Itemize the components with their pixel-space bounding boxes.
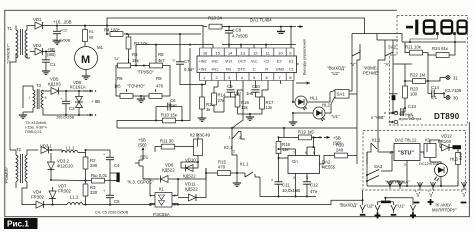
- resistor R18: [276, 136, 290, 158]
- divider top rail: [402, 41, 466, 43]
- svg-text:14: 14: [228, 51, 232, 55]
- svg-text:R21 10к: R21 10к: [405, 44, 421, 49]
- svg-text:VD2: VD2: [33, 43, 42, 48]
- wire from box to output: [362, 190, 364, 200]
- svg-text:100: 100: [410, 91, 418, 96]
- svg-text:Gn: Gn: [292, 159, 298, 164]
- output arrow bottom: [296, 82, 310, 85]
- svg-text:ПЭВ-0,21: ПЭВ-0,21: [25, 130, 42, 134]
- wire SA1 right: [349, 56, 360, 128]
- svg-text:Vref: Vref: [225, 59, 233, 63]
- dashed box DT890: [390, 16, 468, 126]
- resistor R13: [203, 15, 230, 48]
- ground near C8: [277, 26, 285, 34]
- fork plus: [375, 205, 380, 213]
- diode VD4: [30, 189, 53, 208]
- resistor R3: [83, 181, 98, 206]
- svg-text:"U": "U": [114, 57, 120, 61]
- svg-text:GND: GND: [276, 68, 285, 72]
- svg-text:мультиметра: мультиметра: [399, 117, 423, 121]
- svg-text:Т3: К10х6х5,: Т3: К10х6х5,: [25, 121, 47, 125]
- svg-text:0,51*: 0,51*: [184, 67, 194, 72]
- svg-text:РЕНИЕ": РЕНИЕ": [363, 71, 380, 76]
- svg-text:(SB): (SB): [47, 52, 56, 57]
- wire to box: [314, 128, 358, 164]
- digit 8 c: [458, 21, 467, 34]
- wire R10 bus: [117, 48, 190, 128]
- svg-text:68: 68: [89, 36, 93, 40]
- svg-text:Т2: Т2: [16, 147, 22, 152]
- svg-text:КС191А: КС191А: [70, 85, 86, 90]
- svg-text:ICL7106: ICL7106: [445, 88, 462, 93]
- svg-text:DA1 TL494: DA1 TL494: [250, 18, 272, 23]
- minus sign: [406, 26, 413, 29]
- resistor R22: [393, 53, 429, 84]
- resistor R4: [104, 27, 128, 36]
- bold bar C4C5: [117, 173, 120, 183]
- svg-text:С3: С3: [69, 106, 75, 111]
- motor M1 fan: [75, 45, 104, 79]
- resistor R16: [235, 90, 249, 114]
- ground K: [236, 173, 238, 180]
- svg-text:30: 30: [453, 96, 458, 101]
- svg-text:С1: С1: [50, 62, 56, 67]
- box bottom bus: [367, 152, 458, 186]
- svg-text:питание: питание: [399, 112, 413, 116]
- resistor R23: [403, 81, 419, 108]
- svg-text:1: 1: [229, 135, 231, 139]
- svg-text:КД522: КД522: [185, 186, 198, 191]
- svg-text:Vcc: Vcc: [251, 59, 257, 63]
- capacitor C4: [85, 149, 121, 173]
- ground bus under timer: [260, 190, 316, 197]
- svg-text:1н5: 1н5: [246, 91, 254, 96]
- svg-text:I: I: [29, 96, 30, 100]
- digit 8 a: [424, 21, 435, 34]
- svg-text:"V": "V": [350, 62, 356, 67]
- svg-text:"STANDBY": "STANDBY": [7, 43, 11, 64]
- svg-text:± С8: ± С8: [232, 28, 242, 33]
- svg-text:4к7: 4к7: [158, 58, 165, 63]
- svg-text:9: 9: [289, 51, 291, 55]
- resistor R11: [155, 138, 198, 152]
- svg-text:Rш 0,01: Rш 0,01: [91, 173, 108, 178]
- wire C9 down bus: [224, 97, 236, 112]
- svg-text:R8: R8: [158, 52, 164, 57]
- wire IC right to rails: [293, 64, 299, 90]
- pushbutton SB1: [135, 152, 149, 179]
- bottom bus: [110, 200, 363, 204]
- LED HL3: [430, 156, 458, 186]
- svg-text:С14: С14: [431, 85, 439, 90]
- fork minus U1: [391, 205, 396, 213]
- diode VD3.2: [48, 149, 74, 180]
- svg-text:27к: 27к: [218, 98, 225, 103]
- potentiometer R8: [150, 44, 177, 80]
- svg-text:330: 330: [90, 163, 98, 168]
- battery forks dashed: [415, 191, 420, 199]
- diode VD3.1: [40, 143, 62, 153]
- zener VD6: [70, 80, 86, 116]
- svg-text:+16...20В: +16...20В: [53, 20, 72, 25]
- +5V SB terminal: [138, 137, 147, 152]
- svg-text:2: 2: [404, 163, 406, 167]
- capacitor C3: [56, 90, 75, 120]
- svg-text:"U1": "U1": [331, 114, 340, 119]
- potentiometer R9: [149, 76, 170, 98]
- svg-text:NE555: NE555: [322, 165, 336, 170]
- svg-text:±: ±: [271, 178, 273, 182]
- svg-text:M: M: [81, 54, 90, 66]
- output arrow top: [297, 25, 303, 28]
- svg-text:+IN2: +IN2: [199, 59, 207, 63]
- svg-text:SA1: SA1: [337, 92, 346, 97]
- svg-text:15к: 15к: [132, 58, 139, 63]
- svg-text:+С2: +С2: [60, 29, 67, 33]
- svg-text:SB1: SB1: [140, 154, 149, 159]
- wire R4 rail: [107, 26, 201, 35]
- svg-text:К2 РЭС49: К2 РЭС49: [190, 133, 211, 138]
- svg-text:РЭС55А: РЭС55А: [153, 212, 170, 217]
- svg-text:10: 10: [278, 51, 282, 55]
- svg-text:Т3: Т3: [36, 83, 42, 88]
- svg-text:C1: C1: [289, 68, 294, 72]
- resistor R21: [405, 41, 428, 55]
- svg-text:"U2": "U2": [331, 71, 340, 76]
- svg-text:"ТОЧНО": "ТОЧНО": [127, 84, 146, 89]
- svg-text:12к: 12к: [241, 105, 248, 110]
- wire rail y26.6: [107, 26, 296, 27]
- resistor R10: [155, 107, 183, 123]
- svg-text:С4: С4: [114, 163, 120, 168]
- svg-text:330: 330: [90, 190, 98, 195]
- dp 2: [453, 32, 456, 35]
- svg-text:1: 1: [203, 76, 205, 80]
- svg-text:L1.1: L1.1: [66, 145, 75, 150]
- svg-text:3: 3: [228, 76, 230, 80]
- resistor R17: [238, 90, 274, 120]
- svg-text:R6: R6: [117, 76, 123, 81]
- svg-text:C2: C2: [264, 59, 269, 63]
- svg-text:R1: R1: [89, 30, 94, 34]
- svg-text:С9: С9: [227, 84, 233, 89]
- svg-text:(SB): (SB): [138, 142, 147, 147]
- svg-text:С5: С5: [114, 199, 120, 204]
- svg-text:240: 240: [336, 148, 344, 153]
- diode VD10: [181, 157, 199, 171]
- svg-text:I-15в, II-30*ч: I-15в, II-30*ч: [25, 126, 47, 130]
- capacitor C5: [103, 182, 120, 206]
- svg-text:R9: R9: [156, 76, 162, 81]
- svg-text:11к*: 11к*: [282, 147, 290, 152]
- svg-text:31: 31: [453, 76, 458, 81]
- wires display to divider: [410, 35, 455, 42]
- diode VD12: [438, 134, 453, 151]
- IC DA1 TL494: [197, 18, 297, 81]
- svg-text:К1.1: К1.1: [372, 137, 381, 142]
- svg-text:+ 9В: + 9В: [91, 99, 100, 104]
- svg-text:C: C: [253, 68, 256, 72]
- switch SA2-V: [350, 34, 397, 67]
- svg-text:3к: 3к: [206, 107, 210, 112]
- svg-text:R24 91к: R24 91к: [432, 46, 448, 51]
- LED HL2: [292, 103, 331, 121]
- svg-text:С10: С10: [252, 84, 260, 89]
- svg-text:T1: T1: [7, 26, 13, 31]
- switch K2.1: [224, 128, 245, 173]
- relay K1 box X1: [143, 179, 179, 217]
- svg-text:II: II: [45, 96, 47, 100]
- svg-text:КД522: КД522: [183, 173, 196, 178]
- diode VD9: [143, 162, 179, 182]
- regulator DA2 78L12: [383, 137, 427, 168]
- svg-text:1к5: 1к5: [114, 84, 121, 89]
- relay K3: [424, 137, 440, 162]
- svg-text:К1: К1: [159, 186, 165, 191]
- svg-text:SA2: SA2: [388, 44, 397, 49]
- svg-text:С12: С12: [310, 182, 318, 187]
- capacitor C14: [428, 81, 444, 100]
- svg-text:15: 15: [216, 51, 220, 55]
- svg-text:470: 470: [156, 84, 164, 89]
- resistor R19: [279, 130, 331, 140]
- inductor L1.2: [53, 194, 110, 204]
- svg-text:M1: M1: [97, 45, 104, 50]
- svg-text:16: 16: [203, 51, 207, 55]
- svg-text:+IN1: +IN1: [199, 68, 207, 72]
- svg-text:13: 13: [241, 51, 245, 55]
- svg-text:DT890: DT890: [434, 112, 460, 121]
- svg-text:12к: 12к: [266, 105, 273, 110]
- resistor R14: [212, 87, 226, 112]
- svg-text:VD1: VD1: [33, 17, 42, 22]
- resistor R12: [198, 85, 215, 122]
- transformer T1: [7, 26, 30, 63]
- diode VD7: [49, 183, 71, 205]
- svg-text:"U2": "U2": [366, 204, 375, 209]
- resistor R7: [126, 34, 147, 63]
- wire mains left: [9, 62, 11, 150]
- wire meter leads: [360, 44, 395, 149]
- fork plus right: [410, 205, 415, 213]
- svg-text:OCT: OCT: [238, 59, 247, 63]
- switch K1.2: [367, 137, 383, 164]
- svg-text:"POWER": "POWER": [5, 166, 9, 184]
- wire pins down: [206, 81, 294, 91]
- svg-text:470: 470: [218, 164, 226, 169]
- svg-text:"U1": "U1": [397, 204, 406, 209]
- svg-text:4: 4: [241, 76, 243, 80]
- svg-text:L1.2: L1.2: [70, 194, 79, 199]
- timer DA3 NE555: [278, 137, 336, 190]
- svg-text:FB: FB: [226, 68, 231, 72]
- wire rail y44.6: [136, 44, 213, 46]
- svg-text:-IN1: -IN1: [211, 68, 218, 72]
- svg-text:"ГРУБО": "ГРУБО": [137, 70, 154, 75]
- wire y44.6 right segment: [213, 27, 296, 48]
- capacitor C9: [227, 84, 242, 97]
- svg-text:E2: E2: [277, 59, 282, 63]
- svg-text:"ВЫХОД": "ВЫХОД": [327, 66, 346, 71]
- switch SA2-A: [377, 34, 398, 67]
- diode VD1: [30, 17, 107, 29]
- svg-text:10,0х16В: 10,0х16В: [282, 188, 300, 193]
- terminal 31: [428, 76, 458, 82]
- svg-text:DTC: DTC: [238, 68, 246, 72]
- svg-text:R22 1М: R22 1М: [410, 72, 425, 77]
- resistor R20: [324, 143, 357, 158]
- svg-text:FR302: FR302: [58, 188, 72, 193]
- capacitor C11: [271, 157, 300, 193]
- dp 1: [436, 32, 439, 35]
- svg-text:47н: 47н: [310, 189, 318, 194]
- svg-text:С4, С5 2200,0х50В: С4, С5 2200,0х50В: [95, 210, 129, 214]
- svg-text:2: 2: [174, 194, 176, 198]
- capacitor C7: [176, 33, 203, 86]
- svg-text:-IN2: -IN2: [211, 59, 218, 63]
- capacitor C13: [395, 104, 416, 119]
- capacitor C10: [246, 84, 262, 97]
- svg-text:VD12: VD12: [441, 134, 452, 139]
- svg-text:4,7х50В: 4,7х50В: [232, 34, 248, 39]
- transformer T3: [19, 83, 48, 118]
- svg-text:11: 11: [266, 51, 270, 55]
- svg-text:С11: С11: [282, 182, 290, 187]
- capacitor C6: [156, 98, 182, 111]
- svg-text:КД103: КД103: [48, 82, 61, 87]
- svg-text:HL1: HL1: [310, 96, 318, 101]
- diode VD2: [30, 43, 55, 55]
- transformer T2: [10, 147, 38, 205]
- fig label box: [4, 218, 38, 229]
- svg-text:С7: С7: [184, 59, 190, 64]
- potentiometer R6: [114, 76, 133, 98]
- capacitor C2: [52, 26, 71, 45]
- resistor R1: [83, 26, 94, 47]
- LED HL1: [292, 90, 330, 110]
- svg-text:R11 30: R11 30: [160, 138, 174, 143]
- potentiometer R5: [114, 52, 139, 80]
- svg-text:15н*: 15н*: [168, 103, 177, 108]
- svg-text:3: 3: [389, 151, 391, 155]
- switch K1.1: [236, 161, 260, 177]
- svg-text:Рис.1: Рис.1: [7, 220, 29, 229]
- fork minus U2: [362, 199, 364, 201]
- svg-text:5: 5: [253, 76, 255, 80]
- terminal 30: [443, 92, 458, 100]
- svg-text:к "+9В": к "+9В": [371, 115, 385, 120]
- svg-text:"ВЫХОД": "ВЫХОД": [339, 203, 358, 208]
- svg-text:100,0х16В: 100,0х16В: [56, 116, 75, 120]
- svg-text:R19 1к5: R19 1к5: [298, 130, 314, 135]
- resistor R24: [428, 41, 456, 57]
- +9V output arrows: [48, 90, 100, 117]
- ground HL: [292, 113, 294, 119]
- svg-text:E1: E1: [289, 59, 294, 63]
- svg-text:FR302: FR302: [31, 194, 45, 199]
- wire +16V top rail: [107, 18, 402, 42]
- svg-text:2: 2: [216, 76, 218, 80]
- svg-text:МУЛЯТОРУ": МУЛЯТОРУ": [432, 207, 457, 212]
- svg-text:7: 7: [293, 151, 295, 155]
- svg-text:2: 2: [233, 149, 235, 153]
- relay K2: [190, 133, 211, 162]
- svg-text:"STU": "STU": [398, 151, 414, 157]
- svg-text:С13: С13: [408, 104, 416, 109]
- ground pot: [133, 95, 149, 97]
- svg-text:R5: R5: [132, 52, 138, 57]
- multimeter supply terminals: [389, 111, 423, 124]
- svg-text:R13 24: R13 24: [208, 15, 222, 20]
- digit 8 b: [442, 21, 453, 34]
- svg-text:SA3: SA3: [374, 164, 383, 169]
- svg-text:7: 7: [278, 76, 280, 80]
- svg-text:R10 15к: R10 15к: [161, 113, 177, 118]
- svg-text:К1.1: К1.1: [240, 161, 249, 166]
- jumper bar: [378, 202, 394, 205]
- wire pot middle: [131, 65, 150, 67]
- svg-text:8: 8: [289, 76, 291, 80]
- svg-text:6: 6: [266, 76, 268, 80]
- svg-text:HL3: HL3: [450, 156, 458, 161]
- diode VD5: [48, 77, 88, 95]
- resistor R25: [456, 149, 463, 186]
- svg-text:R: R: [265, 68, 268, 72]
- wire K1.1 right: [259, 177, 261, 197]
- resistor R15: [178, 159, 237, 179]
- svg-text:"I": "I": [172, 59, 176, 63]
- diode VD11: [178, 168, 206, 201]
- svg-text:12: 12: [253, 51, 257, 55]
- svg-text:Выходы управления: Выходы управления: [303, 39, 307, 75]
- wire pin4 diagonal to K2 area: [232, 90, 243, 128]
- svg-text:R25*: R25*: [459, 151, 463, 160]
- resistor R2: [83, 153, 98, 181]
- svg-text:HL2: HL2: [322, 103, 330, 108]
- switch SA1: [330, 90, 349, 105]
- inductor L1.1: [62, 145, 86, 152]
- capacitor C12: [303, 179, 318, 194]
- bold link bar: [453, 145, 462, 149]
- dashed box battery: [363, 131, 466, 191]
- shunt Rsh: [50, 173, 118, 183]
- svg-text:2: 2: [293, 176, 295, 180]
- 7-seg display: [406, 20, 467, 35]
- svg-text:Ф12С20: Ф12С20: [57, 163, 74, 168]
- box output forks: [387, 181, 402, 189]
- battery polarity signs: [414, 202, 420, 204]
- capacitor C1: [42, 51, 56, 75]
- digit 1: [415, 20, 418, 35]
- svg-text:КД522: КД522: [162, 167, 175, 172]
- capacitor C8: [225, 27, 248, 45]
- switch SA3: [366, 151, 393, 182]
- svg-text:DA2 78L12: DA2 78L12: [395, 137, 417, 142]
